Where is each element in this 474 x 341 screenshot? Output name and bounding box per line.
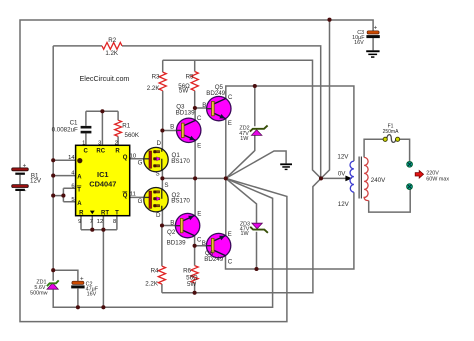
svg-text:12: 12: [97, 219, 103, 225]
svg-text:BD139: BD139: [176, 110, 195, 117]
svg-text:10: 10: [130, 153, 136, 159]
svg-text:B: B: [202, 102, 206, 109]
svg-text:R: R: [115, 148, 120, 154]
svg-text:CD4047: CD4047: [89, 179, 116, 188]
svg-text:E: E: [228, 120, 232, 127]
svg-text:1: 1: [82, 140, 85, 146]
svg-text:+: +: [80, 275, 84, 282]
svg-text:IC1: IC1: [97, 170, 109, 179]
svg-text:−: −: [23, 188, 27, 195]
svg-text:16V: 16V: [87, 292, 97, 298]
svg-text:R3: R3: [152, 74, 160, 81]
svg-text:0V: 0V: [338, 171, 346, 178]
svg-text:C: C: [84, 148, 89, 154]
svg-text:R4: R4: [151, 267, 159, 274]
svg-text:BS170: BS170: [171, 197, 190, 204]
svg-text:14: 14: [68, 155, 75, 161]
svg-text:0.0082uF: 0.0082uF: [52, 126, 78, 133]
svg-text:T: T: [115, 210, 119, 216]
svg-text:E: E: [197, 210, 201, 217]
svg-text:9: 9: [78, 219, 81, 225]
svg-text:BD249: BD249: [206, 90, 225, 97]
svg-text:C: C: [228, 258, 233, 265]
svg-text:60W max: 60W max: [426, 176, 449, 182]
svg-text:B: B: [170, 219, 174, 226]
svg-text:R1: R1: [122, 122, 130, 129]
svg-text:240V: 240V: [371, 177, 386, 184]
svg-text:E: E: [197, 143, 201, 150]
svg-text:560K: 560K: [125, 132, 140, 139]
svg-text:Q: Q: [123, 193, 128, 199]
svg-text:A: A: [77, 201, 82, 207]
svg-text:Q2: Q2: [167, 229, 176, 236]
svg-text:BS170: BS170: [171, 158, 190, 165]
svg-text:2.2K: 2.2K: [147, 85, 161, 92]
svg-text:11: 11: [130, 191, 136, 197]
svg-text:7: 7: [90, 219, 93, 225]
svg-text:250mA: 250mA: [383, 129, 400, 135]
svg-text:12V: 12V: [338, 201, 350, 208]
svg-text:C: C: [197, 115, 202, 122]
svg-text:A: A: [77, 175, 82, 181]
svg-text:+: +: [23, 162, 27, 169]
svg-text:2: 2: [115, 140, 118, 146]
svg-text:RC: RC: [96, 148, 105, 154]
svg-text:BD249: BD249: [204, 256, 223, 263]
svg-text:16V: 16V: [354, 40, 364, 46]
svg-text:G: G: [138, 160, 143, 167]
svg-text:Q: Q: [123, 155, 128, 161]
svg-text:D: D: [156, 212, 161, 219]
svg-text:R2: R2: [108, 37, 116, 44]
svg-text:5W: 5W: [187, 281, 196, 288]
svg-text:1W: 1W: [240, 136, 249, 142]
svg-text:1.2K: 1.2K: [105, 50, 119, 57]
svg-text:12V: 12V: [30, 177, 42, 184]
svg-text:RT: RT: [101, 210, 109, 216]
svg-text:1W: 1W: [241, 231, 250, 237]
svg-text:8: 8: [113, 219, 116, 225]
svg-text:+: +: [374, 25, 378, 32]
svg-text:R5: R5: [186, 73, 194, 80]
svg-text:2.2K: 2.2K: [145, 281, 159, 288]
svg-text:R: R: [79, 210, 84, 216]
svg-text:C: C: [228, 94, 233, 101]
svg-text:G: G: [138, 198, 143, 205]
svg-text:S: S: [156, 170, 160, 177]
svg-text:12V: 12V: [337, 153, 349, 160]
svg-text:3: 3: [98, 140, 101, 146]
svg-text:ElecCircuit.com: ElecCircuit.com: [80, 74, 130, 83]
svg-text:B: B: [202, 240, 206, 247]
svg-text:BD139: BD139: [167, 239, 186, 246]
svg-text:T: T: [77, 187, 81, 193]
svg-text:5W: 5W: [179, 88, 188, 95]
svg-text:R6: R6: [183, 267, 191, 274]
svg-text:5: 5: [71, 197, 74, 203]
svg-text:S: S: [164, 182, 168, 189]
svg-text:B: B: [170, 124, 174, 131]
svg-text:D: D: [157, 140, 162, 147]
svg-text:500mw: 500mw: [30, 290, 47, 296]
svg-text:6: 6: [71, 183, 74, 189]
svg-text:E: E: [228, 231, 232, 238]
